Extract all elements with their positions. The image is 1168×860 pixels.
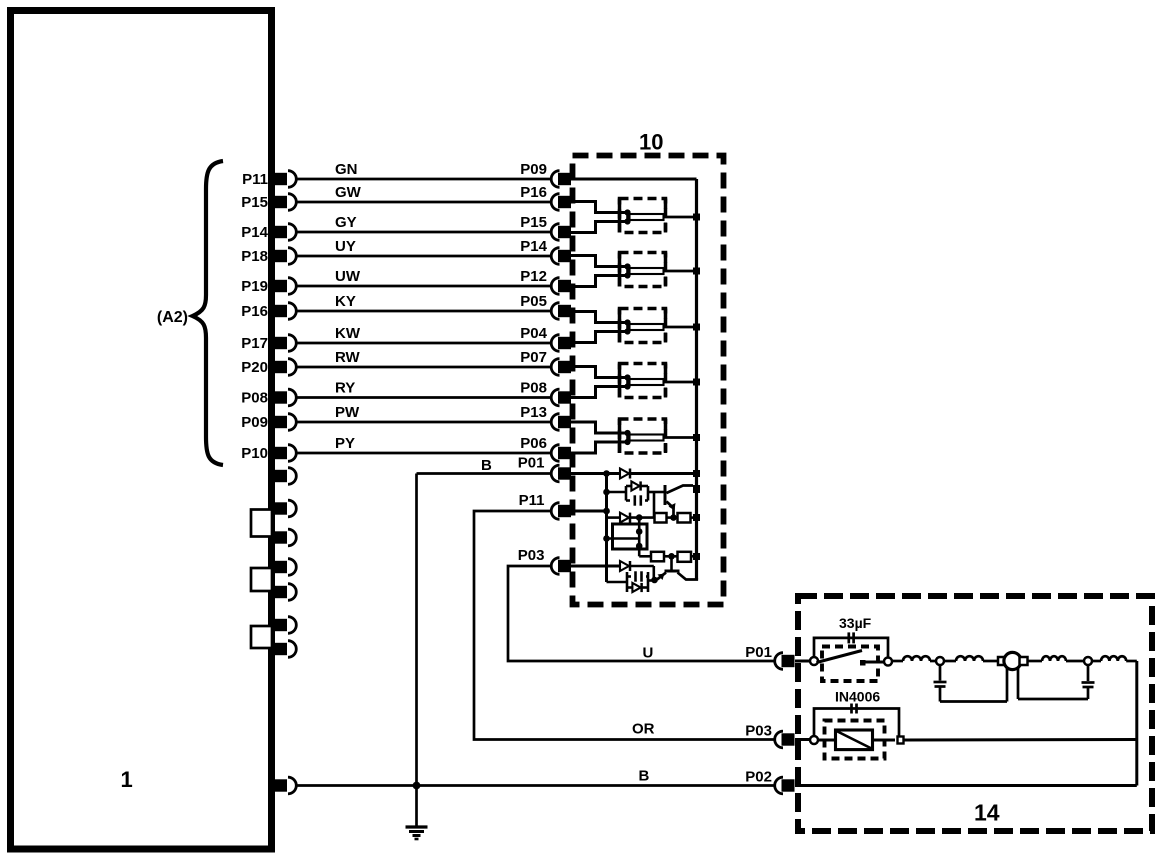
svg-text:14: 14 (974, 800, 1000, 826)
svg-text:P20: P20 (241, 359, 268, 376)
svg-text:KW: KW (335, 325, 361, 342)
svg-text:P15: P15 (241, 194, 268, 211)
svg-text:P09: P09 (241, 414, 268, 431)
svg-text:U: U (643, 645, 654, 662)
svg-text:P12: P12 (520, 268, 547, 285)
svg-text:(A2): (A2) (157, 309, 188, 326)
svg-text:P05: P05 (520, 293, 547, 310)
svg-text:GY: GY (335, 214, 357, 231)
svg-text:P19: P19 (241, 278, 268, 295)
svg-text:P13: P13 (520, 404, 547, 421)
svg-text:GN: GN (335, 161, 358, 178)
svg-text:10: 10 (639, 130, 663, 155)
svg-text:P15: P15 (520, 214, 547, 231)
svg-text:RY: RY (335, 380, 355, 397)
svg-text:P02: P02 (745, 769, 772, 786)
svg-text:P16: P16 (520, 184, 547, 201)
svg-text:P09: P09 (520, 161, 547, 178)
svg-text:P07: P07 (520, 349, 547, 366)
svg-text:P03: P03 (518, 547, 545, 564)
svg-text:P14: P14 (241, 224, 268, 241)
svg-text:B: B (639, 768, 650, 785)
svg-text:1: 1 (121, 767, 133, 792)
svg-text:P11: P11 (242, 171, 268, 188)
svg-text:GW: GW (335, 184, 362, 201)
svg-text:UY: UY (335, 238, 356, 255)
svg-text:IN4006: IN4006 (835, 689, 880, 705)
svg-text:P17: P17 (241, 335, 268, 352)
svg-text:KY: KY (335, 293, 356, 310)
svg-text:P03: P03 (745, 723, 772, 740)
svg-text:OR: OR (632, 721, 655, 738)
svg-text:P01: P01 (745, 644, 772, 661)
svg-text:P11: P11 (519, 492, 545, 509)
svg-text:B: B (481, 457, 492, 474)
svg-text:UW: UW (335, 268, 361, 285)
svg-text:P08: P08 (241, 390, 268, 407)
svg-text:P04: P04 (520, 325, 547, 342)
svg-text:P01: P01 (518, 455, 545, 472)
svg-text:P08: P08 (520, 380, 547, 397)
svg-text:P10: P10 (241, 445, 268, 462)
svg-text:P16: P16 (241, 303, 268, 320)
svg-text:P14: P14 (520, 238, 547, 255)
svg-text:PY: PY (335, 435, 355, 452)
svg-text:P18: P18 (241, 248, 268, 265)
svg-text:RW: RW (335, 349, 361, 366)
svg-text:PW: PW (335, 404, 360, 421)
svg-text:33µF: 33µF (839, 615, 872, 631)
svg-text:P06: P06 (520, 435, 547, 452)
